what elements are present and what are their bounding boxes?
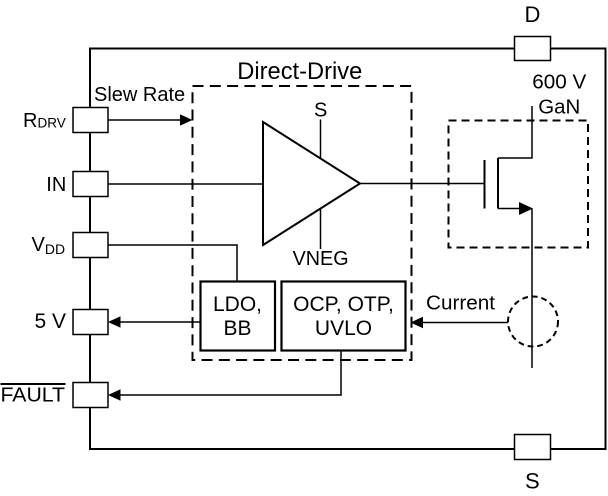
op-amp buffer (gate driver) [263, 122, 360, 245]
package boundary (IC outline) [90, 49, 606, 450]
pin IN [73, 172, 108, 197]
arrowhead into OCP block (current) [411, 317, 424, 329]
svg-text:5 V: 5 V [35, 310, 67, 333]
wire: source down to current sense [531, 209, 533, 369]
wire: S supply to buffer [320, 120, 322, 159]
svg-text:FAULT: FAULT [1, 385, 66, 407]
svg-text:UVLO: UVLO [315, 317, 372, 340]
pin D [515, 37, 551, 61]
svg-text:S: S [525, 469, 540, 494]
arrowhead into Direct-Drive (slew rate) [180, 114, 193, 126]
Direct-Drive dashed block [193, 86, 412, 360]
wire: Slew Rate from RDRV pin to Direct-Drive block [108, 119, 182, 121]
pin 5V [73, 310, 108, 335]
svg-text:OCP, OTP,: OCP, OTP, [293, 293, 394, 316]
transistor Q1 (GaN FET) gate bar [484, 160, 486, 209]
pin S [515, 435, 551, 460]
svg-text:BB: BB [223, 317, 251, 340]
wire: VNEG supply to buffer [320, 209, 322, 250]
transistor Q1 source arrowhead [519, 202, 533, 215]
transistor Q1 drain lead [498, 106, 532, 158]
GaN FET dashed block [449, 121, 589, 248]
svg-text:Direct-Drive: Direct-Drive [237, 58, 362, 85]
svg-text:IN: IN [46, 174, 66, 196]
block OCP, OTP, UVLO [282, 282, 406, 351]
svg-text:VNEG: VNEG [293, 248, 349, 270]
wire: buffer output to GaN gate [360, 183, 485, 185]
svg-text:VDD: VDD [32, 234, 66, 257]
svg-text:Current: Current [426, 293, 495, 315]
svg-text:Slew Rate: Slew Rate [94, 84, 185, 106]
svg-text:D: D [525, 2, 541, 27]
transistor Q1 source lead [498, 208, 522, 210]
arrowhead into FAULT pin [108, 389, 121, 401]
wire: IN pin to buffer input [108, 183, 263, 185]
wire: VDD pin to LDO block [108, 245, 237, 282]
wire: current sense to OCP block [421, 322, 508, 324]
svg-text:LDO,: LDO, [213, 293, 262, 316]
arrowhead into 5V pin [108, 316, 121, 328]
pin VDD [73, 233, 108, 258]
current sense circle [508, 297, 558, 347]
svg-text:S: S [314, 100, 327, 122]
wire: OCP block to FAULT pin [119, 351, 341, 396]
wire: LDO output to 5V pin [119, 321, 201, 323]
svg-text:600 V: 600 V [532, 72, 587, 94]
pin RDRV [73, 108, 108, 133]
transistor Q1 channel bar [497, 158, 499, 209]
pin FAULT [73, 383, 108, 408]
svg-text:GaN: GaN [538, 97, 580, 119]
svg-text:RDRV: RDRV [23, 110, 66, 132]
block LDO, BB [201, 282, 276, 351]
